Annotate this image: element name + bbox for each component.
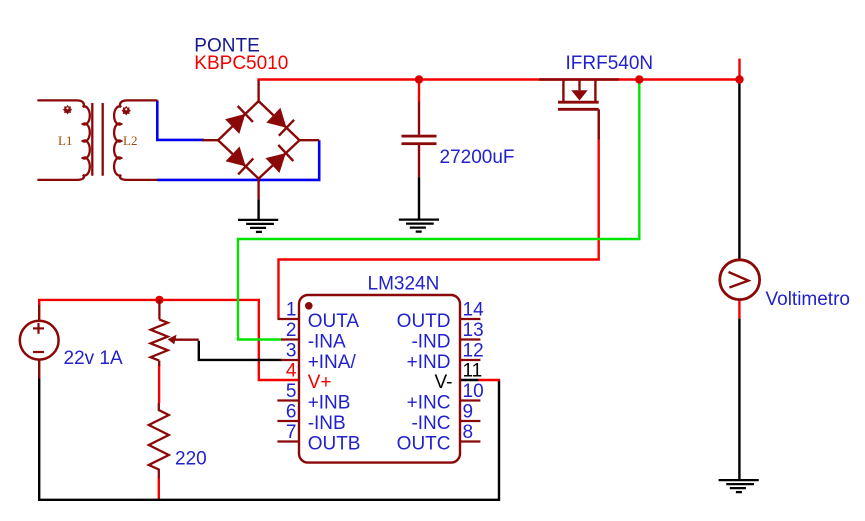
svg-text:-INC: -INC <box>411 413 450 434</box>
bridge rectifier diamond <box>218 101 299 179</box>
svg-text:22v 1A: 22v 1A <box>64 348 123 369</box>
svg-text:OUTD: OUTD <box>397 311 451 332</box>
svg-text:1: 1 <box>286 300 297 321</box>
wire L2 bottom blue to bridge right <box>157 140 319 180</box>
ground under voltmeter <box>719 480 759 492</box>
wire green net gate-sense <box>238 80 639 340</box>
U1 left pin names <box>308 311 361 455</box>
svg-text:-IND: -IND <box>411 332 450 353</box>
transformer TR1 <box>37 100 157 179</box>
winding L2 <box>114 100 157 179</box>
svg-text:+IND: +IND <box>407 352 451 373</box>
wire top rail red <box>257 78 739 80</box>
svg-text:14: 14 <box>463 300 485 321</box>
svg-text:7: 7 <box>286 422 297 443</box>
junction dot capacitor <box>415 75 423 83</box>
svg-text:-INB: -INB <box>308 413 346 434</box>
winding L1 <box>37 100 89 179</box>
svg-text:2: 2 <box>286 320 297 341</box>
wire pot wiper black <box>199 341 282 360</box>
U1 right pin numbers <box>463 300 485 444</box>
svg-text:L2: L2 <box>123 133 137 148</box>
wire voltmeter top stub <box>738 59 740 80</box>
svg-text:6: 6 <box>286 402 297 423</box>
mosfet arrow <box>571 90 587 100</box>
svg-text:V-: V- <box>435 372 453 393</box>
U1 left pin numbers <box>286 300 297 444</box>
opamp U1 LM324N body <box>299 295 460 463</box>
wire bridge left stub maroon <box>203 139 219 141</box>
ground under capacitor <box>399 220 439 232</box>
svg-text:IFRF540N: IFRF540N <box>566 53 654 74</box>
svg-text:OUTA: OUTA <box>308 311 360 332</box>
wire pot to R220 red <box>158 365 160 403</box>
resistor R220 <box>149 403 169 478</box>
diode D-bottomleft <box>226 147 254 175</box>
svg-text:27200uF: 27200uF <box>440 147 515 168</box>
svg-text:+INC: +INC <box>407 393 451 414</box>
svg-text:V+: V+ <box>308 372 332 393</box>
capacitor C1 leads <box>418 80 420 102</box>
svg-text:OUTC: OUTC <box>397 434 451 455</box>
voltmeter body <box>720 260 760 300</box>
diode D-bottomright <box>266 145 294 173</box>
wire bridge right stub maroon <box>300 139 320 141</box>
svg-text:4: 4 <box>286 361 297 382</box>
wire bridge bottom maroon then black <box>257 179 259 200</box>
junction dot pot top <box>155 296 163 304</box>
wire L2 top blue <box>157 100 204 139</box>
ground under bridge <box>238 220 278 232</box>
svg-text:3: 3 <box>286 341 297 362</box>
wire voltmeter top black <box>738 80 740 261</box>
wire bottom rail black <box>39 378 499 500</box>
svg-text:Voltimetro: Voltimetro <box>766 289 850 310</box>
phase dot L2 <box>121 106 131 116</box>
svg-text:11: 11 <box>463 361 483 382</box>
svg-text:+INB: +INB <box>308 393 351 414</box>
phase dot L1 <box>63 105 73 115</box>
svg-text:-INA: -INA <box>308 332 346 353</box>
wire R220 bottom red <box>158 477 160 500</box>
svg-text:12: 12 <box>463 341 484 362</box>
svg-text:+INA/: +INA/ <box>308 352 357 373</box>
diode D-topleft <box>225 106 253 134</box>
wire voltmeter bottom black <box>738 319 740 480</box>
potentiometer RV1 <box>158 300 160 320</box>
U1 orientation dot <box>305 302 313 310</box>
voltage source V1 22v 1A <box>38 305 40 321</box>
wire voltmeter bottom red <box>738 300 740 319</box>
wire red source top to V+ pin4 <box>39 300 298 380</box>
U1 left pin stubs <box>277 319 299 442</box>
svg-text:220: 220 <box>175 449 207 470</box>
U1 right pin stubs <box>460 319 480 442</box>
U1 right pin names <box>397 311 453 455</box>
svg-text:5: 5 <box>286 381 297 402</box>
junction dot voltmeter <box>735 75 743 83</box>
core lines <box>91 103 93 176</box>
mosfet Q1 IFRF540N <box>539 80 619 140</box>
svg-text:10: 10 <box>463 381 484 402</box>
wire pin11 V- black+red <box>459 379 479 381</box>
wire red gate to pin1 <box>279 110 599 319</box>
voltmeter chevron <box>729 272 749 288</box>
potentiometer wiper arrow <box>172 339 199 341</box>
svg-text:OUTB: OUTB <box>308 434 361 455</box>
svg-text:13: 13 <box>463 320 484 341</box>
capacitor C1 plates <box>402 135 437 138</box>
svg-text:LM324N: LM324N <box>368 273 440 294</box>
svg-text:KBPC5010: KBPC5010 <box>194 53 288 74</box>
junction dot mosfet-green <box>635 75 643 83</box>
diode D-topright <box>266 108 294 136</box>
svg-text:9: 9 <box>463 402 474 423</box>
svg-text:8: 8 <box>463 422 474 443</box>
wire bridge top lead maroon <box>257 80 259 101</box>
svg-text:L1: L1 <box>58 133 72 148</box>
